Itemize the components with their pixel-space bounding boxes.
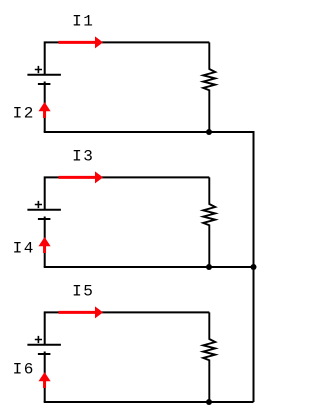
junction node loop2-bottom-left [206,264,212,270]
label I5 [72,283,94,301]
current arrow I4 [39,237,51,253]
resistor R2 [203,177,215,267]
current arrow I3 [59,171,104,183]
current arrow I1 [59,36,104,48]
wire loop3 left lower [44,352,46,403]
junction node loop2-bottom-right [251,264,257,270]
wire right bus [253,131,255,402]
svg-text:I5: I5 [72,283,94,301]
svg-text:I6: I6 [13,360,35,378]
label I2 [13,105,35,123]
wire loop2 left lower [44,217,46,268]
junction node loop1-bottom [206,129,212,135]
resistor R1 [203,42,215,132]
junction node loop3-bottom [206,399,212,405]
wire loop2 top [45,177,210,209]
wire loop1 bottom [44,131,254,133]
svg-text:I1: I1 [72,13,94,31]
current arrow I6 [39,372,51,388]
svg-text:I2: I2 [13,105,35,123]
current arrow I5 [59,306,104,318]
wire loop1 top [45,42,210,74]
resistor R3 [203,312,215,402]
battery V3 [27,336,61,354]
label I1 [72,13,94,31]
svg-text:I4: I4 [13,240,35,258]
wire loop1 left lower [44,82,46,133]
wire loop2 bottom [44,266,254,268]
label I4 [13,240,35,258]
label I6 [13,360,35,378]
battery V2 [27,201,61,219]
wire loop3 top [45,312,210,344]
battery V1 [27,66,61,84]
svg-text:I3: I3 [72,148,94,166]
wire loop3 bottom [44,401,254,403]
label I3 [72,148,94,166]
current arrow I2 [39,102,51,118]
